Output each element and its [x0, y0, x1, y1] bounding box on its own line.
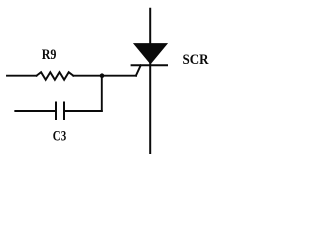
svg-text:SCR: SCR: [183, 52, 209, 68]
wire junction down to capacitor: [101, 76, 103, 111]
SCR U1 vertical anode/cathode line: [149, 8, 151, 154]
wire junction to SCR gate: [102, 75, 136, 77]
svg-text:C3: C3: [53, 128, 66, 144]
wire left lead to resistor: [7, 75, 37, 77]
resistor R9: [37, 72, 74, 80]
node junction dot: [100, 73, 105, 78]
wire gate diagonal segment: [136, 65, 141, 75]
svg-text:R9: R9: [42, 47, 57, 63]
capacitor C3: [56, 102, 64, 121]
wire capacitor right lead: [65, 110, 102, 112]
SCR cathode bar: [131, 64, 168, 66]
wire capacitor left lead: [15, 110, 55, 112]
SCR triangle: [134, 44, 167, 64]
wire resistor to junction: [73, 75, 102, 77]
